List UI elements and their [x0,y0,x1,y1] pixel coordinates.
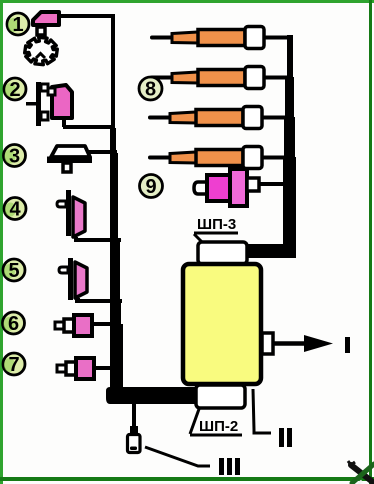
svg-text:5: 5 [8,260,19,282]
wire: bus to ShP-3 connector [246,244,296,258]
spark plug 8b [152,67,288,89]
spark plug 8c [150,107,286,129]
label ShP-2 [190,409,242,435]
pointer line to II [253,389,271,433]
callout circle 5 [3,259,25,282]
svg-text:ШП-3: ШП-3 [197,216,236,233]
output nub on right of block [262,333,273,354]
gear (toothed wheel) [25,37,58,64]
wire: right plug bus vertical [283,35,296,250]
svg-text:3: 3 [9,146,20,168]
component 7 (plug sensor) [57,358,94,379]
component 3 (horn / module) [47,146,92,172]
component 5 (sensor on plate) [59,258,87,301]
watermark tools icon bottom-right [348,461,374,484]
wire: left bus bottom bar to ShP-2 [106,387,198,404]
svg-text:8: 8 [145,79,156,101]
spark plug 8a [152,27,288,49]
connector III [128,426,141,453]
label ShP-3 [194,216,238,250]
frame left green [0,0,3,484]
connector ShP-2 under block [196,385,245,408]
callout circle 6 [3,312,25,335]
wire drop to connector III [132,404,136,428]
svg-text:4: 4 [9,199,21,221]
bracket of component 2 [26,82,48,126]
wire: component 1 to bus [58,14,115,18]
svg-text:2: 2 [9,79,20,101]
label II [279,428,292,447]
sensor 1 (crankshaft sensor) body [33,12,59,35]
svg-text:6: 6 [8,313,19,335]
frame right green [369,0,372,484]
component 6 (plug sensor) [55,315,92,336]
sensor 2 (camshaft sensor) [48,85,72,127]
connector ShP-3 on block [198,242,247,264]
svg-text:1: 1 [12,14,23,36]
svg-text:ШП-2: ШП-2 [199,418,238,435]
wire: component 2 to bus [63,125,113,129]
callout circle 3 [4,145,26,168]
frame bottom green [0,477,374,481]
callout circle 8 [139,77,162,101]
wire: component 5 to bus [75,299,122,303]
component 4 (sensor on plate) [57,190,85,240]
wire: component 7 to bus [93,366,122,370]
svg-text:7: 7 [8,354,19,376]
callout circle 7 [3,353,25,376]
wire: component 6 to bus [91,322,120,326]
callout circle 9 [140,175,163,199]
pointer line to III [145,447,210,466]
svg-text:9: 9 [145,176,156,198]
callout circle 1 [7,13,29,36]
component 9 (ignition coil) [194,169,287,206]
label III [219,458,240,475]
ECU block II (yellow) [183,264,261,384]
wire: component 4 to bus [74,238,121,242]
frame top green [0,0,374,3]
callout circle 4 [4,198,26,221]
wire: component 3 to bus [88,150,117,154]
callout circle 2 [4,78,26,101]
wire: left main bus vertical [110,14,123,390]
arrow I [273,335,350,353]
spark plug 8d [150,147,286,169]
